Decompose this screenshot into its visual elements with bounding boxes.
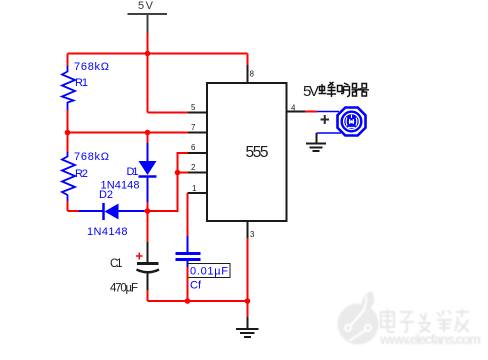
capacitor Cf 0.01uF bbox=[176, 236, 231, 292]
svg-text:C1: C1 bbox=[110, 258, 123, 270]
buzzer LS1 bbox=[338, 108, 366, 136]
wire Cf to bottom bus bbox=[187, 267, 189, 301]
junction R1/R2 pin7 bbox=[65, 130, 71, 136]
pin 3 bbox=[248, 221, 256, 239]
svg-text:1: 1 bbox=[192, 184, 197, 193]
diode D1 1N4148 bbox=[101, 133, 157, 212]
svg-text:D1: D1 bbox=[127, 166, 139, 178]
wire top bus to pin8 bbox=[247, 54, 249, 66]
svg-text:768kΩ: 768kΩ bbox=[74, 151, 109, 163]
pin 8 bbox=[248, 65, 255, 83]
svg-text:1N4148: 1N4148 bbox=[87, 226, 128, 238]
pin 6 bbox=[188, 143, 207, 153]
watermark text 电子发烧友 bbox=[381, 309, 469, 332]
resistor R1 bbox=[62, 54, 109, 133]
wire D2 left red bbox=[68, 210, 80, 212]
pin 7 bbox=[188, 123, 207, 133]
wire buzzer bottom lead bbox=[317, 132, 342, 134]
svg-text:1N4148: 1N4148 bbox=[101, 180, 140, 192]
wire buzzer top lead bbox=[317, 111, 339, 113]
resistor R2 bbox=[62, 133, 109, 212]
junction pin3 / bus bbox=[245, 298, 251, 304]
svg-text:8: 8 bbox=[250, 70, 255, 79]
svg-text:5V: 5V bbox=[303, 83, 319, 100]
ground main bbox=[236, 317, 259, 337]
svg-text:0.01µF: 0.01µF bbox=[190, 266, 228, 278]
svg-text:R1: R1 bbox=[75, 77, 88, 89]
svg-text:5V: 5V bbox=[138, 0, 154, 12]
wire bottom bus bbox=[148, 300, 248, 302]
junction Cf / bus bbox=[185, 298, 191, 304]
watermark logo elecfans bbox=[338, 291, 379, 345]
wire pin7 horizontal bbox=[68, 132, 190, 134]
wire pin2 bbox=[178, 172, 190, 174]
wire D2 right red bbox=[144, 210, 148, 212]
svg-text:2: 2 bbox=[191, 163, 196, 172]
wire to pin 5 bbox=[148, 112, 190, 114]
svg-text:R2: R2 bbox=[75, 168, 88, 180]
pin 5 bbox=[188, 103, 207, 113]
wire pin6 corner bbox=[178, 153, 190, 173]
svg-text:www.elecfans.com: www.elecfans.com bbox=[379, 332, 481, 347]
junction top bus / 5V bbox=[145, 51, 151, 57]
svg-text:7: 7 bbox=[191, 123, 196, 132]
wire node to pin2 riser bbox=[148, 173, 178, 212]
pin 2 bbox=[188, 163, 207, 173]
junction D2/D1/C1 node bbox=[145, 208, 151, 214]
svg-text:3: 3 bbox=[250, 230, 255, 239]
svg-text:Cf: Cf bbox=[190, 280, 202, 292]
plus sign buzzer bbox=[321, 115, 330, 124]
wire pin4 red segment bbox=[305, 111, 317, 113]
diode D2 1N4148 bbox=[79, 189, 144, 238]
svg-text:6: 6 bbox=[191, 143, 196, 152]
wire pin1 down to Cf bbox=[187, 193, 189, 236]
wire pin3 down bbox=[247, 238, 249, 301]
capacitor C1 470uF bbox=[110, 211, 159, 301]
wire x=147.5 top bus down to pin5 wire bbox=[147, 54, 149, 113]
junction pin2/pin6 riser bbox=[175, 170, 181, 176]
wire 5V to top bus bbox=[147, 33, 149, 54]
label 5V buzzer (5V蜂鸣器) bbox=[303, 82, 369, 100]
power 5V symbol bbox=[128, 0, 168, 33]
junction D1 pin7 bbox=[145, 130, 151, 136]
svg-text:4: 4 bbox=[291, 104, 296, 113]
ground buzzer bbox=[306, 133, 326, 151]
pin 4 bbox=[287, 104, 306, 113]
pin 1 bbox=[188, 184, 208, 193]
wire bus to ground bbox=[247, 301, 249, 317]
svg-text:555: 555 bbox=[246, 144, 269, 161]
svg-text:470µF: 470µF bbox=[110, 283, 138, 295]
svg-text:768kΩ: 768kΩ bbox=[74, 61, 109, 73]
wire top bus bbox=[68, 53, 248, 55]
IC U1 555 timer bbox=[207, 83, 287, 221]
svg-text:5: 5 bbox=[191, 103, 196, 112]
